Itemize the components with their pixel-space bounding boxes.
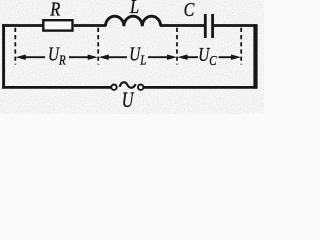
- svg-text:R: R: [49, 0, 60, 21]
- node dashed line 1: [14, 28, 16, 65]
- node dashed line 2: [97, 28, 99, 65]
- svg-text:L: L: [129, 0, 139, 19]
- wire bottom-right segment: [144, 86, 257, 89]
- source terminal right circle: [138, 85, 143, 90]
- wire left vertical: [2, 24, 5, 88]
- node dashed line 3: [176, 28, 178, 65]
- voltage arrow U_L left head: [100, 55, 109, 60]
- voltage arrow U_R left head: [17, 55, 26, 60]
- voltage arrow U_L right head: [167, 55, 176, 60]
- voltage arrow U_R right shaft: [69, 56, 90, 58]
- voltage arrow U_C left head: [179, 55, 188, 60]
- voltage arrow U_R right head: [88, 55, 97, 60]
- capacitor C left plate: [204, 14, 207, 38]
- voltage arrow U_L left shaft: [107, 56, 127, 58]
- wire capacitor to right corner: [214, 24, 258, 27]
- source AC sine symbol: [120, 82, 136, 87]
- node dashed line 4: [240, 28, 242, 65]
- wire resistor to inductor: [74, 24, 106, 27]
- voltage arrow U_C left shaft: [186, 56, 198, 58]
- svg-text:C: C: [184, 0, 195, 20]
- wire top-left segment: [2, 24, 42, 27]
- svg-text:U: U: [122, 88, 135, 112]
- capacitor C right plate: [211, 14, 214, 38]
- voltage arrow U_C right head: [231, 55, 240, 60]
- source terminal left circle: [111, 85, 116, 90]
- voltage arrow U_R left shaft: [24, 56, 45, 58]
- voltage arrow U_C right shaft: [219, 56, 234, 58]
- paper noise texture: [0, 0, 264, 114]
- wire inductor to capacitor: [160, 24, 204, 27]
- resistor R: [43, 20, 72, 30]
- wire right vertical: [253, 24, 257, 88]
- wire bottom-left segment: [2, 86, 111, 89]
- inductor L: [106, 16, 161, 26]
- voltage arrow U_L right shaft: [148, 56, 170, 58]
